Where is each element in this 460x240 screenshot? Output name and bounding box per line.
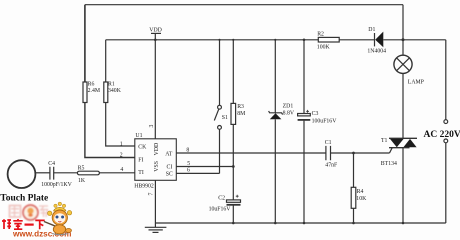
svg-text:10uF16V: 10uF16V (209, 207, 232, 213)
svg-text:CK: CK (138, 144, 147, 150)
resistor R2 (317, 31, 339, 50)
wire bottom rail (155, 222, 445, 225)
AC 220V source terminals (424, 40, 460, 223)
wire top rail (85, 4, 403, 6)
pin number 1 (120, 141, 123, 147)
svg-text:R1: R1 (108, 81, 115, 87)
svg-text:R5: R5 (78, 166, 85, 172)
svg-text:3: 3 (149, 125, 155, 128)
svg-text:1000pF/1KV: 1000pF/1KV (41, 182, 72, 188)
svg-text:ZD1: ZD1 (283, 104, 294, 110)
VDD power symbol (149, 28, 162, 42)
svg-text:100K: 100K (317, 44, 331, 50)
svg-text:HB9902: HB9902 (134, 184, 154, 190)
pin number 2 (120, 153, 123, 159)
resistor R1 (104, 81, 122, 102)
svg-text:100uF16V: 100uF16V (312, 118, 338, 124)
svg-text:5: 5 (187, 161, 190, 167)
svg-text:FI: FI (138, 157, 143, 163)
svg-text:R4: R4 (357, 189, 364, 195)
svg-text:1N4004: 1N4004 (367, 49, 386, 55)
capacitor C1 (325, 140, 338, 168)
svg-text:7: 7 (148, 193, 154, 196)
wire AT pin8 / gate wire (176, 148, 389, 154)
capacitor C4 (41, 161, 77, 188)
resistor R4 (351, 152, 367, 223)
svg-text:TI: TI (138, 170, 144, 176)
zener diode ZD1 (269, 40, 295, 223)
svg-text:Touch Plate: Touch Plate (0, 193, 48, 203)
watermark www.dzsc.com (12, 229, 71, 238)
svg-text:2: 2 (120, 153, 123, 159)
svg-text:SC: SC (166, 171, 173, 177)
svg-text:R2: R2 (317, 31, 324, 37)
svg-text:AT: AT (165, 152, 173, 158)
wire R6 branch vertical top (84, 5, 86, 82)
wire CI pin5 (176, 161, 234, 168)
svg-text:8M: 8M (237, 111, 245, 117)
svg-text:T1: T1 (381, 138, 388, 144)
watermark 维库一下 red text (2, 219, 45, 229)
svg-text:LAMP: LAMP (408, 80, 424, 86)
svg-text:BT134: BT134 (381, 161, 397, 167)
resistor R3 (231, 40, 245, 167)
svg-text:CI: CI (167, 165, 173, 171)
wire R6 to pin2 (85, 103, 135, 158)
node lamp junction (402, 38, 405, 41)
wire R1 vertical (105, 40, 107, 82)
svg-text:R3: R3 (237, 104, 244, 110)
triac T1 (381, 138, 417, 223)
wire R2 to D1 (339, 39, 375, 41)
svg-text:47nF: 47nF (325, 162, 338, 168)
svg-text:VSS: VSS (154, 161, 160, 172)
wire VDD rail (106, 39, 319, 41)
watermark red stamp (23, 205, 38, 220)
pin number 4 (120, 167, 123, 173)
svg-text:S1: S1 (222, 115, 228, 121)
wire SC pin6 (176, 168, 219, 174)
svg-text:4: 4 (120, 167, 123, 173)
diode D1 1N4004 (367, 27, 445, 55)
svg-text:8: 8 (186, 148, 189, 154)
wire pin7 vertical (148, 180, 155, 223)
svg-text:D1: D1 (368, 27, 375, 33)
svg-text:1: 1 (120, 141, 123, 147)
resistor R6 (83, 81, 100, 102)
wire pin3 vertical (149, 40, 155, 139)
touch plate (0, 160, 49, 203)
svg-text:C4: C4 (48, 161, 55, 167)
svg-text:340K: 340K (108, 88, 122, 94)
resistor R5 (77, 166, 134, 184)
svg-text:C1: C1 (325, 140, 332, 146)
capacitor C3 electrolytic (298, 39, 338, 224)
svg-text:1K: 1K (78, 178, 86, 184)
svg-text:VDD: VDD (149, 28, 162, 34)
svg-text:2.4M: 2.4M (88, 88, 100, 94)
capacitor C2 electrolytic (209, 167, 241, 224)
svg-text:C2: C2 (218, 196, 225, 202)
svg-text:6: 6 (187, 168, 190, 174)
svg-text:AC 220V: AC 220V (424, 130, 460, 140)
ground (145, 223, 167, 232)
svg-text:R6: R6 (88, 81, 95, 87)
svg-text:C3: C3 (312, 111, 319, 117)
wire top-right vertical to lamp junction (402, 5, 404, 40)
watermark mascot (44, 202, 72, 235)
op-amp U1 HB9902 IC box (134, 133, 176, 190)
svg-text:VDD: VDD (154, 143, 160, 156)
watermark faint text (10, 206, 49, 218)
wire R1 to pin1 (106, 103, 135, 147)
switch S1 (214, 40, 228, 174)
lamp (394, 40, 424, 139)
svg-text:U1: U1 (135, 133, 142, 139)
svg-text:8.8V: 8.8V (283, 110, 295, 116)
svg-text:10K: 10K (356, 196, 367, 202)
